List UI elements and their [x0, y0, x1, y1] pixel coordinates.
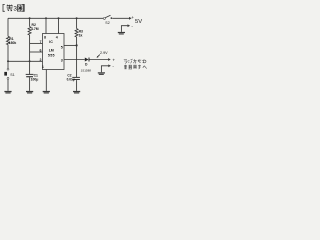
switch S1 [4, 68, 14, 79]
wire [29, 77, 31, 91]
ground (C2) [73, 91, 80, 92]
IC U1 LM555 timer box [43, 34, 65, 70]
output - wire [101, 66, 108, 73]
svg-text:S1: S1 [10, 73, 14, 77]
resistor R3 1k [75, 29, 78, 37]
node (pin2/C1 junction) [29, 60, 31, 62]
top supply rail [8, 17, 103, 19]
svg-text:+: + [131, 15, 134, 20]
svg-text:555: 555 [48, 54, 55, 58]
svg-text:8: 8 [44, 36, 46, 40]
wire [76, 80, 78, 91]
svg-text:5: 5 [61, 45, 63, 49]
svg-text:3: 3 [13, 6, 17, 13]
svg-text:6: 6 [40, 49, 42, 53]
pin 8 wire [45, 18, 47, 33]
svg-text:2: 2 [40, 58, 42, 62]
ground (pin 1) [43, 91, 50, 92]
svg-text:2.9V: 2.9V [100, 51, 108, 55]
node R3/pin5/C2 [76, 44, 78, 46]
wire R3 to node to C2 (crosses pin3 wire) [76, 37, 78, 77]
pin 5 stub [64, 44, 77, 46]
pin 3 output wire [64, 59, 85, 61]
svg-text:5V: 5V [135, 19, 142, 25]
svg-text:0.01μ: 0.01μ [67, 78, 75, 82]
wire [7, 45, 9, 69]
svg-text:LM: LM [49, 48, 54, 52]
wire (R2 bottom to pins 7/6/2 and C1) [29, 35, 31, 74]
arrow - output [108, 64, 111, 67]
node (trigger junction) [7, 60, 9, 62]
resistor R1 180k [7, 36, 10, 44]
arrow + output [108, 58, 111, 61]
node R3 top [76, 17, 78, 19]
svg-text:4.7M: 4.7M [31, 27, 39, 31]
capacitor C1 100u [26, 74, 39, 82]
diode D 1S1588 [81, 58, 92, 73]
capacitor C2 0.01u [67, 74, 80, 82]
ground (supply minus) [118, 32, 125, 33]
ground (left branch) [4, 91, 11, 92]
wire [7, 80, 9, 91]
svg-text:+: + [112, 57, 115, 62]
note ラジカセの電源端子へ [124, 59, 146, 64]
svg-text:1S1588: 1S1588 [81, 68, 92, 72]
rail segment after switch S2 [112, 17, 129, 19]
ground (output minus) [98, 72, 105, 73]
supply minus wire [121, 26, 127, 32]
svg-text:100μ: 100μ [31, 77, 39, 81]
pin 7 stub [30, 42, 43, 44]
svg-text:IC: IC [49, 40, 53, 44]
node R2 top [29, 17, 31, 19]
arrow + of 5V supply [129, 17, 132, 20]
svg-text:1k: 1k [79, 33, 83, 37]
output + wire [90, 59, 109, 61]
caption [第3図] [3, 4, 24, 12]
pin 6 stub [30, 51, 43, 53]
resistor R2 4.7M [28, 27, 31, 35]
ground (C1) [26, 91, 33, 92]
arrow - of 5V supply [128, 24, 131, 27]
trigger wire (pin2 run) [8, 60, 43, 62]
wire [76, 18, 78, 28]
svg-text:S2: S2 [105, 21, 109, 25]
left branch wire [7, 18, 9, 36]
svg-text:3: 3 [61, 59, 63, 63]
2.9V annotation [97, 51, 109, 58]
pin 4 wire [58, 18, 60, 33]
svg-text:180k: 180k [9, 41, 17, 45]
svg-text:4: 4 [56, 36, 58, 40]
wire [29, 18, 31, 26]
svg-text:7: 7 [40, 40, 42, 44]
pin 1 wire [45, 70, 47, 91]
switch S2 [103, 15, 112, 25]
svg-text:1: 1 [42, 65, 44, 69]
